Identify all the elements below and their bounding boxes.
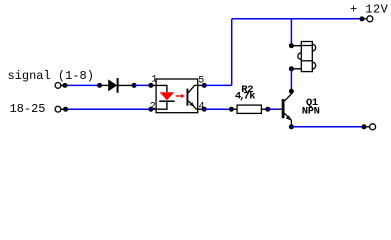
optocoupler U1 led cathode bar — [159, 100, 175, 102]
jumper JP1 pin bump right top — [312, 44, 315, 51]
junction dot opto pin2 — [148, 107, 153, 112]
transistor Q1 collector — [285, 91, 292, 101]
junction dot collector — [289, 89, 294, 94]
wire output — [291, 126, 364, 128]
diode D1 cathode lead — [117, 84, 134, 86]
optocoupler U1 pin5 — [198, 84, 203, 86]
svg-text:18-25: 18-25 — [10, 102, 46, 116]
junction dot pin4 net — [202, 107, 207, 112]
junction dot emitter — [289, 124, 294, 129]
resistor R2 left lead — [231, 108, 237, 110]
optocoupler U1 light arrow — [176, 95, 182, 97]
diode D1 triangle — [108, 79, 117, 91]
transistor Q1 base lead — [278, 108, 281, 110]
svg-text:1: 1 — [151, 75, 157, 86]
jumper JP1 cap line 2 — [301, 60, 312, 62]
junction dot row1 b — [97, 83, 102, 88]
junction dot jumper top — [289, 43, 294, 48]
wire vertical up to rail — [231, 19, 233, 86]
terminal signal row1 — [55, 83, 61, 89]
optocoupler U1 led cathode wire — [156, 101, 167, 109]
wire jumper to collector — [290, 69, 292, 92]
junction dot jumper bottom — [289, 66, 294, 71]
optocoupler U1 pin1 — [151, 84, 156, 86]
wire pin4 to R2 — [204, 108, 231, 110]
junction dot row2 a — [63, 107, 68, 112]
jumper JP1 top stub — [291, 45, 301, 47]
resistor R2 right lead — [261, 108, 267, 110]
optocoupler U1 pin4 — [198, 108, 203, 110]
junction dot R2 right — [265, 107, 270, 112]
terminal +12V circle — [367, 16, 373, 22]
wire row2 left — [61, 108, 151, 110]
wire 12V branch down — [290, 19, 292, 46]
wire R2 to Q1 base — [268, 108, 279, 110]
svg-text:signal (1-8): signal (1-8) — [8, 69, 94, 83]
wire row1 left — [61, 84, 100, 86]
svg-text:4,7k: 4,7k — [235, 91, 255, 103]
svg-text:2: 2 — [150, 101, 156, 112]
terminal stub row2 — [61, 108, 64, 110]
wire pin5 to vertical — [204, 84, 231, 86]
terminal output circle — [370, 124, 376, 130]
junction dot row1 c — [132, 83, 137, 88]
diode D1 cathode bar — [117, 78, 119, 93]
optocoupler U1 phototransistor emitter — [188, 101, 197, 109]
jumper JP1 pin bump right bottom — [312, 62, 315, 69]
optocoupler U1 phototransistor base bar — [187, 89, 189, 106]
resistor R2 body — [237, 105, 261, 113]
terminal +12V stub — [362, 18, 367, 20]
junction dot pin5 net — [202, 83, 207, 88]
jumper JP1 bottom stub — [291, 68, 301, 70]
svg-text:NPN: NPN — [302, 106, 320, 118]
junction dot R2 left — [229, 107, 234, 112]
junction dot output — [362, 124, 367, 129]
terminal output stub — [364, 126, 370, 128]
optocoupler U1 led triangle — [160, 92, 175, 100]
diode D1 anode lead — [100, 84, 109, 86]
jumper JP1 cap body — [301, 42, 312, 72]
optocoupler U1 led anode wire — [156, 85, 167, 92]
jumper JP1 pin bump left middle — [298, 53, 301, 60]
optocoupler U1 phototransistor collector — [188, 85, 197, 92]
junction dot opto pin1 — [148, 83, 153, 88]
junction dot row1 a — [63, 83, 68, 88]
terminal stub row1 — [61, 84, 64, 86]
optocoupler U1 pin2 — [151, 108, 156, 110]
terminal 18-25 row2 — [55, 106, 61, 112]
wire +12V rail — [232, 18, 362, 20]
optocoupler U1 box — [156, 79, 198, 113]
jumper JP1 cap line 1 — [301, 45, 312, 47]
svg-text:+ 12V: + 12V — [350, 2, 389, 16]
wire row1 to opto — [134, 84, 151, 86]
transistor Q1 emitter — [285, 113, 292, 127]
transistor Q1 emitter arrow — [286, 115, 292, 120]
transistor Q1 base bar — [282, 99, 285, 118]
junction dot +12V — [359, 16, 364, 21]
